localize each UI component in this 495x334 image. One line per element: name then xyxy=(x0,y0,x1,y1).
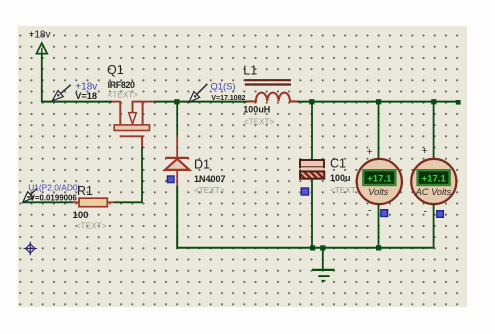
capacitor C1 bottom plate (hatched) xyxy=(300,171,324,178)
wire: rail down to voltmeter 1 xyxy=(378,102,380,160)
inductor L1 core lines xyxy=(245,80,291,84)
svg-text:L1: L1 xyxy=(243,64,257,78)
diode D1 cathode pin (red) xyxy=(176,135,178,157)
meter body circle xyxy=(411,159,456,204)
svg-text:Q1(S): Q1(S) xyxy=(211,80,236,91)
svg-text:<TEXT>: <TEXT> xyxy=(330,186,361,195)
diode D1 anode pin xyxy=(176,170,178,186)
wire: inductor to output rail xyxy=(297,101,460,103)
svg-text:Q1: Q1 xyxy=(107,63,124,77)
svg-text:AC Volts: AC Volts xyxy=(415,187,452,197)
diode D1 cathode bar xyxy=(165,157,188,159)
marker: blue square at voltmeter 1 xyxy=(381,210,388,217)
svg-text:C1: C1 xyxy=(330,157,346,171)
svg-text:<TEXT>: <TEXT> xyxy=(194,186,225,195)
source leg xyxy=(142,102,144,125)
LCD display +17.1 xyxy=(363,170,395,185)
schematic beige canvas xyxy=(18,26,467,307)
svg-text:+18v: +18v xyxy=(29,30,51,41)
voltage probe (Q1(S), V=17.1082) xyxy=(189,80,245,102)
capacitor C1 top plate xyxy=(300,160,324,167)
svg-text:+: + xyxy=(367,146,373,158)
voltmeter U2 (DC Volts) xyxy=(357,102,402,248)
wire: power stem down to rail xyxy=(41,54,43,102)
wire: MOSFET source red stub to rail xyxy=(144,101,155,103)
voltage probe (U1(P2.0/AD0), V=0.0199006) xyxy=(23,183,81,203)
junction node at ground tap xyxy=(320,245,325,250)
svg-text:<TEXT>: <TEXT> xyxy=(244,117,275,126)
svg-text:+: + xyxy=(422,145,428,157)
svg-text:IRF820: IRF820 xyxy=(108,80,135,90)
svg-text:<TEXT>: <TEXT> xyxy=(76,220,107,230)
svg-text:+17.1: +17.1 xyxy=(367,174,392,185)
wire: rail down to C1 xyxy=(311,102,313,160)
junction node at C1 bottom xyxy=(310,245,315,250)
svg-text:U1(P2.0/AD0): U1(P2.0/AD0) xyxy=(28,183,80,193)
body arrow head (hollow, pointing down) xyxy=(129,113,137,124)
node: rail end dot xyxy=(456,100,461,105)
svg-text:100u: 100u xyxy=(330,173,351,183)
wire: junction down to diode D1 xyxy=(176,102,178,135)
transistor Q1 MOSFET IRF820 xyxy=(114,102,149,147)
svg-text:100uH: 100uH xyxy=(243,105,270,115)
wire: rail down to voltmeter 2 xyxy=(433,102,435,160)
svg-text:1N4007: 1N4007 xyxy=(194,174,226,184)
source top bar xyxy=(132,101,144,103)
svg-text:+17.1: +17.1 xyxy=(422,174,447,185)
power symbol +18v (up arrow) xyxy=(36,43,47,54)
inductor L1 coils xyxy=(247,93,297,102)
wire: left rail to MOSFET drain xyxy=(41,101,112,103)
channel plate xyxy=(114,125,149,131)
wire: diode anode down and right to ground rail xyxy=(177,186,434,248)
wire: rail source to inductor xyxy=(154,101,247,103)
body arrow line xyxy=(132,102,134,113)
junction node at C1 top xyxy=(309,99,314,104)
svg-text:V=17.1082: V=17.1082 xyxy=(211,93,245,102)
svg-text:<TEXT>: <TEXT> xyxy=(108,90,139,99)
svg-text:V=0.0199006: V=0.0199006 xyxy=(30,194,78,203)
voltage probe (+18v, V=18) xyxy=(52,81,97,101)
svg-text:-: - xyxy=(368,205,372,217)
origin marker (blue crosshair) xyxy=(24,242,38,256)
gate electrode line xyxy=(120,135,143,137)
resistor R1 right pin stub xyxy=(107,201,114,203)
svg-text:-: - xyxy=(424,206,428,218)
junction node at voltmeter 1 bottom xyxy=(376,245,381,250)
voltmeter U3 (AC Volts) xyxy=(411,102,456,248)
svg-text:V=18: V=18 xyxy=(75,91,97,101)
marker: blue square at voltmeter 2 xyxy=(437,211,444,218)
wire: voltmeter 2 down to ground rail xyxy=(433,204,435,248)
gate pin xyxy=(141,136,143,147)
wire: C1 down to ground rail xyxy=(311,179,313,248)
LCD display +17.1 xyxy=(418,170,450,185)
marker: blue square at C1 xyxy=(301,188,308,195)
wire: R1 right to MOSFET gate xyxy=(114,147,142,202)
meter body circle xyxy=(357,159,402,204)
ground symbol xyxy=(312,248,335,281)
svg-text:D1: D1 xyxy=(194,157,210,171)
wire: red drain pin stub xyxy=(112,101,121,103)
junction node at diode top xyxy=(174,99,179,104)
svg-text:Volts: Volts xyxy=(368,187,388,197)
marker: blue square at D1 xyxy=(167,176,174,183)
junction node at voltmeter 1 top xyxy=(376,99,381,104)
junction node at voltmeter 2 top xyxy=(431,99,436,104)
drain leg xyxy=(119,102,121,125)
resistor R1 left pin stub xyxy=(73,201,79,203)
capacitor C1 gap xyxy=(301,167,323,171)
wire: voltmeter 1 down to ground rail xyxy=(378,204,380,248)
resistor R1 body xyxy=(79,198,107,207)
diode D1 triangle (pointing up) xyxy=(165,159,190,170)
wire: probe to resistor R1 xyxy=(23,201,74,203)
